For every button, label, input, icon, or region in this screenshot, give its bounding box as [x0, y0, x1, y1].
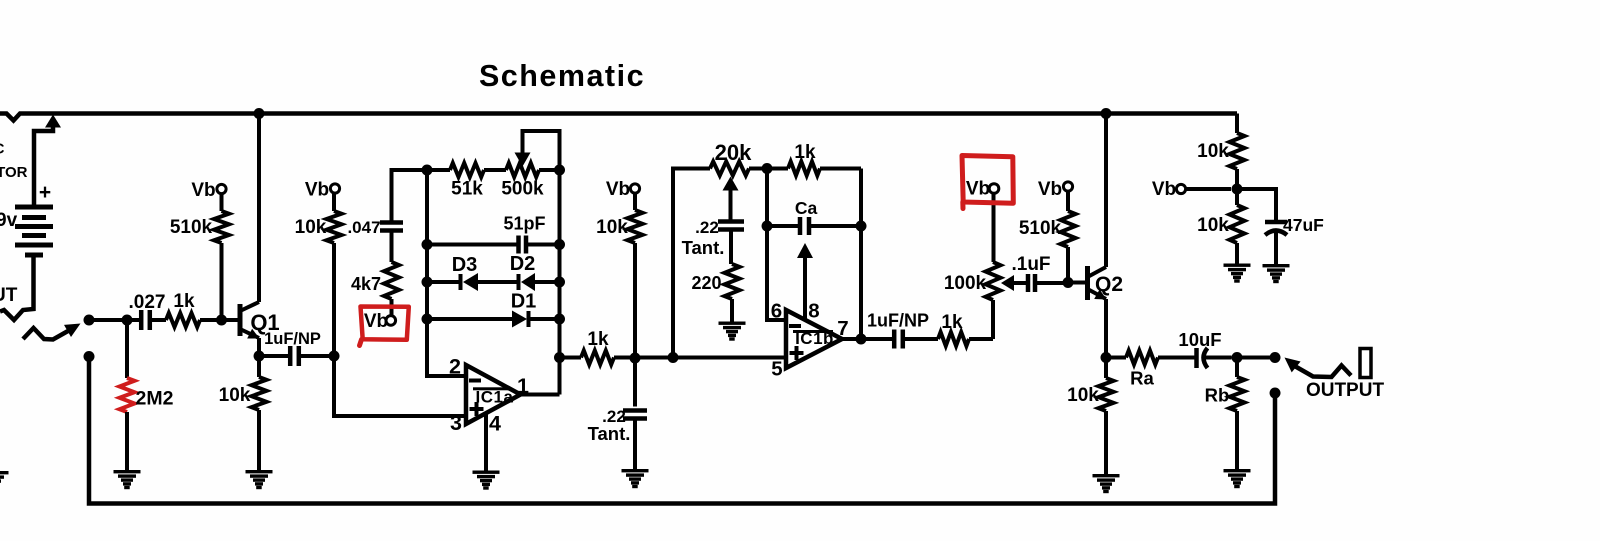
- label 10k supply upper: [1197, 141, 1229, 162]
- node 20k wiper rail: [762, 163, 773, 174]
- node IC1a output junction: [554, 352, 565, 363]
- svg-text:DC: DC: [0, 141, 5, 158]
- resistor 10k Q2 emitter: [1099, 358, 1114, 475]
- svg-text:10uF: 10uF: [1178, 329, 1221, 350]
- diode D1: [427, 311, 560, 328]
- svg-text:5: 5: [771, 358, 782, 381]
- node 51pF right: [554, 239, 565, 250]
- svg-text:Vb: Vb: [364, 311, 388, 332]
- capacitor 1uF/NP IC1b out: [894, 330, 938, 349]
- title Schematic: [479, 59, 645, 93]
- svg-text:ADAPTOR: ADAPTOR: [0, 164, 28, 181]
- svg-text:1k: 1k: [794, 142, 816, 163]
- svg-text:51k: 51k: [451, 179, 483, 200]
- svg-text:10k: 10k: [596, 217, 628, 238]
- IC1b inverting minus: [789, 324, 801, 328]
- label D2: [510, 253, 536, 275]
- svg-text:510k: 510k: [170, 217, 213, 238]
- label 220: [691, 273, 721, 293]
- resistor 1k IC1b fb: [767, 162, 861, 176]
- ground DC jack (clipped): [0, 471, 9, 490]
- node Q1 emitter: [254, 351, 265, 362]
- svg-text:D3: D3: [452, 254, 478, 276]
- node output sleeve: [1270, 388, 1281, 399]
- label IC1b pin8: [808, 300, 819, 323]
- resistor Rb: [1230, 358, 1245, 470]
- label Q1: [250, 310, 279, 335]
- node fb row1 right: [554, 165, 565, 176]
- label Q2: [1095, 273, 1123, 296]
- svg-text:10k: 10k: [1197, 141, 1229, 162]
- wire IC1a output: [521, 393, 560, 397]
- label 1uF/NP IC1b: [867, 311, 929, 331]
- label Tant. mid: [588, 423, 631, 444]
- label Vb 100k: [966, 179, 990, 200]
- label IC1b pin5: [771, 358, 782, 381]
- svg-text:1uF/NP: 1uF/NP: [264, 330, 321, 348]
- label Vb Q2: [1038, 179, 1062, 200]
- node D3 row left: [422, 277, 433, 288]
- svg-text:D2: D2: [510, 253, 536, 275]
- op-amp IC1a triangle: [466, 365, 521, 424]
- svg-text:10k: 10k: [295, 217, 327, 238]
- svg-text:IC1a: IC1a: [476, 388, 514, 407]
- node Q1 collector: [254, 108, 265, 119]
- wire IC1b output: [842, 337, 894, 341]
- label 1k input: [173, 291, 195, 312]
- svg-text:3: 3: [450, 411, 462, 435]
- output jack arrow: [1285, 358, 1352, 378]
- svg-text:Vb: Vb: [191, 180, 215, 201]
- svg-text:+: +: [39, 181, 51, 204]
- capacitor 47uF: [1265, 222, 1287, 265]
- ground Q1 emitter: [246, 470, 273, 489]
- wire feedback right rail: [558, 170, 562, 395]
- label 4k7: [351, 274, 381, 294]
- label Ra: [1130, 368, 1154, 389]
- label Ca: [795, 198, 818, 218]
- label 10k Q1: [219, 385, 251, 406]
- IC1b noninverting plus: [790, 346, 804, 360]
- label 1k output: [941, 312, 963, 333]
- svg-text:Vb: Vb: [606, 179, 630, 200]
- annotation arrow Ca: [797, 243, 813, 319]
- ground 2M2: [114, 470, 141, 489]
- svg-text:D1: D1: [511, 291, 537, 313]
- label 51k: [451, 179, 483, 200]
- svg-text:4k7: 4k7: [351, 274, 381, 294]
- potentiometer 500k: [506, 131, 560, 177]
- svg-text:1k: 1k: [173, 291, 195, 312]
- label 10k Q2: [1067, 385, 1099, 406]
- label 1k IC1b fb: [794, 142, 816, 163]
- resistor 1k input: [166, 313, 238, 327]
- label .1uF: [1011, 254, 1050, 275]
- diode D3: [427, 273, 517, 291]
- terminal Vb 100k: [989, 184, 999, 194]
- resistor 10k supply upper: [1230, 114, 1245, 190]
- capacitor .22 Tant 20k: [718, 222, 744, 265]
- annotation red box Vb left: [360, 307, 409, 346]
- label IC1b pin6: [771, 300, 782, 323]
- output jack contact: [1360, 349, 1371, 378]
- wire input to C1: [89, 318, 139, 322]
- label 47uF: [1283, 215, 1324, 235]
- svg-text:Ra: Ra: [1130, 368, 1154, 389]
- ground .22 mid: [622, 469, 649, 488]
- resistor 220: [725, 264, 740, 322]
- svg-text:20k: 20k: [715, 140, 752, 165]
- label .047: [347, 218, 380, 237]
- wire ground return rail: [89, 357, 1275, 504]
- node Q2 base: [1063, 277, 1074, 288]
- label 10k Vb mid: [596, 217, 628, 238]
- ground Rb: [1224, 469, 1251, 488]
- svg-text:9v: 9v: [0, 210, 18, 231]
- svg-text:7: 7: [837, 317, 848, 340]
- input jack arrow: [23, 324, 81, 340]
- wire 20k left rail: [673, 169, 710, 358]
- capacitor 10uF: [1197, 348, 1232, 368]
- label Tant. 20k: [682, 237, 725, 258]
- svg-text:.027: .027: [129, 292, 166, 313]
- svg-text:Q2: Q2: [1095, 273, 1123, 296]
- node Ca left: [762, 221, 773, 232]
- node Q2 emitter: [1101, 352, 1112, 363]
- label 10uF: [1178, 329, 1221, 350]
- wire to IC1a pin3: [334, 356, 466, 416]
- wire to output jack: [1237, 356, 1275, 360]
- resistor 10k Q1 emitter: [252, 356, 267, 471]
- transistor Q2: [1088, 266, 1107, 300]
- wire Q2 emitter: [1104, 299, 1108, 358]
- capacitor .047: [380, 170, 427, 262]
- node input sleeve: [84, 351, 95, 362]
- label 10k supply lower: [1197, 215, 1229, 236]
- label ADAPTOR (clipped): [0, 164, 28, 181]
- label .027: [129, 292, 166, 313]
- wire IC1a pin4: [484, 413, 488, 471]
- svg-text:Rb: Rb: [1205, 385, 1230, 406]
- svg-text:Schematic: Schematic: [479, 59, 645, 93]
- label IC1a pin3: [450, 411, 462, 435]
- label 510k Q1: [170, 217, 213, 238]
- node bias junction: [329, 351, 340, 362]
- label D3: [452, 254, 478, 276]
- svg-text:UT: UT: [0, 285, 18, 306]
- label Vb 4k7: [364, 311, 388, 332]
- svg-text:1k: 1k: [587, 329, 609, 350]
- label Vb mid: [606, 179, 630, 200]
- node 2M2 junction: [122, 315, 133, 326]
- svg-text:.1uF: .1uF: [1011, 254, 1050, 275]
- ground 220: [719, 322, 746, 341]
- transistor Q1: [240, 302, 260, 339]
- label 500k: [501, 179, 544, 200]
- node Vb supply: [1232, 184, 1243, 195]
- svg-text:.22: .22: [695, 218, 719, 237]
- IC1a inverting minus: [469, 379, 481, 383]
- label .22 mid: [602, 407, 626, 426]
- svg-text:.047: .047: [347, 218, 380, 237]
- node 51pF left: [422, 239, 433, 250]
- label 2M2: [136, 388, 174, 410]
- svg-text:Ca: Ca: [795, 198, 818, 218]
- svg-text:Vb: Vb: [305, 180, 329, 201]
- resistor 2M2 red: [120, 320, 135, 470]
- ground 47uF: [1263, 264, 1290, 283]
- label 1uF/NP Q1: [264, 330, 321, 348]
- resistor 510k Q1 bias: [214, 194, 229, 321]
- svg-text:10k: 10k: [1197, 215, 1229, 236]
- label INPUT (clipped): [0, 285, 18, 306]
- node D2 row right: [554, 277, 565, 288]
- terminal Vb Q2: [1063, 182, 1072, 191]
- node Ca right: [856, 221, 867, 232]
- label 10k bias: [295, 217, 327, 238]
- label battery +: [39, 181, 51, 204]
- node output coupling: [1232, 352, 1243, 363]
- terminal Vb bias: [330, 184, 339, 193]
- resistor 10k supply lower: [1230, 189, 1245, 264]
- label IC1a pin2: [449, 355, 461, 379]
- label battery 9v: [0, 210, 18, 231]
- ground Q2 emitter: [1093, 474, 1120, 493]
- wire to IC1b pin5: [629, 356, 786, 360]
- wire top supply rail: [0, 114, 1237, 121]
- svg-text:4: 4: [489, 412, 501, 436]
- label IC1b pin7: [837, 317, 848, 340]
- node Q2 collector: [1101, 108, 1112, 119]
- node 20k rail junction: [668, 352, 679, 363]
- svg-text:1uF/NP: 1uF/NP: [867, 311, 929, 331]
- svg-text:OUTPUT: OUTPUT: [1306, 380, 1385, 401]
- svg-text:1k: 1k: [941, 312, 963, 333]
- svg-text:2M2: 2M2: [136, 388, 174, 410]
- label IC1a name: [473, 387, 513, 406]
- diode D2: [519, 273, 560, 291]
- resistor 1k output: [938, 332, 993, 346]
- label .22 20k: [695, 218, 719, 237]
- wire Q2 collector: [1104, 113, 1108, 267]
- label 510k Q2: [1019, 218, 1062, 239]
- label IC1b name: [793, 329, 834, 348]
- terminal Vb supply: [1176, 184, 1185, 193]
- node D1 row right: [554, 314, 565, 325]
- resistor 51k: [427, 163, 506, 177]
- wire Q1 emitter: [257, 338, 261, 356]
- label Vb supply: [1152, 179, 1176, 200]
- svg-text:6: 6: [771, 300, 782, 323]
- capacitor 51pF: [427, 236, 560, 254]
- label DC (clipped): [0, 141, 5, 158]
- svg-text:51pF: 51pF: [503, 214, 545, 234]
- resistor 1k interstage: [560, 351, 636, 365]
- capacitor .1uF: [1028, 274, 1068, 292]
- wire IC1b fb right rail: [859, 169, 863, 340]
- label 20k: [715, 140, 752, 165]
- resistor Ra: [1106, 351, 1195, 365]
- capacitor .027: [141, 310, 166, 330]
- label IC1a pin1: [517, 374, 529, 398]
- node Vb filter junction: [630, 353, 641, 364]
- battery arrow to supply rail: [34, 115, 61, 208]
- label Vb Q1: [191, 180, 215, 201]
- op-amp IC1b triangle: [786, 310, 842, 368]
- terminal Vb mid: [630, 184, 639, 193]
- wire Vb supply: [1186, 187, 1232, 191]
- terminal Vb Q1: [217, 184, 226, 193]
- svg-text:Vb: Vb: [966, 179, 990, 200]
- label IC1a pin4: [489, 412, 501, 436]
- node fb row1 left: [422, 165, 433, 176]
- annotation red box Vb right: [962, 156, 1013, 209]
- resistor 10k bias: [327, 194, 342, 357]
- terminal Vb 4k7: [386, 316, 396, 326]
- wire Q1 collector: [257, 113, 261, 302]
- wire Q2 base: [1068, 281, 1086, 285]
- node output tip: [1270, 352, 1281, 363]
- label Rb: [1205, 385, 1230, 406]
- svg-text:500k: 500k: [501, 179, 544, 200]
- svg-text:2: 2: [449, 355, 461, 379]
- label D1: [511, 291, 537, 313]
- label 51pF: [503, 214, 545, 234]
- capacitor 1uF/NP Q1 out: [259, 346, 334, 366]
- label 1k interstage: [587, 329, 609, 350]
- svg-text:47uF: 47uF: [1283, 215, 1324, 235]
- label OUTPUT: [1306, 380, 1385, 401]
- node D1 row left: [422, 314, 433, 325]
- wire IC1b inverting rail: [767, 169, 786, 321]
- capacitor .22 Tant mid: [623, 358, 647, 470]
- battery B1 9v: [15, 207, 53, 255]
- node Q1 base junction: [216, 315, 227, 326]
- ground supply divider: [1224, 264, 1251, 283]
- wire feedback left rail: [427, 170, 466, 376]
- svg-text:Vb: Vb: [1038, 179, 1062, 200]
- ground IC1a: [473, 471, 500, 490]
- svg-text:Vb: Vb: [1152, 179, 1176, 200]
- capacitor Ca: [767, 217, 861, 235]
- svg-text:100k: 100k: [944, 273, 987, 294]
- potentiometer 20k: [710, 162, 767, 222]
- svg-text:510k: 510k: [1019, 218, 1062, 239]
- node input tip: [84, 315, 95, 326]
- node IC1b output: [856, 334, 867, 345]
- resistor 4k7: [384, 262, 399, 316]
- svg-text:IC1b: IC1b: [795, 329, 834, 348]
- svg-text:10k: 10k: [219, 385, 251, 406]
- svg-text:220: 220: [691, 273, 721, 293]
- label 100k: [944, 273, 987, 294]
- wire to 47uF: [1237, 189, 1276, 223]
- svg-text:8: 8: [808, 300, 819, 323]
- potentiometer 100k: [986, 193, 1028, 339]
- svg-text:Tant.: Tant.: [682, 237, 725, 258]
- resistor 10k Vb mid: [628, 193, 643, 358]
- label Vb bias: [305, 180, 329, 201]
- wire battery negative to input jack: [0, 255, 34, 320]
- IC1a noninverting plus: [470, 402, 484, 416]
- resistor 510k Q2: [1061, 191, 1076, 283]
- svg-text:10k: 10k: [1067, 385, 1099, 406]
- svg-text:Tant.: Tant.: [588, 423, 631, 444]
